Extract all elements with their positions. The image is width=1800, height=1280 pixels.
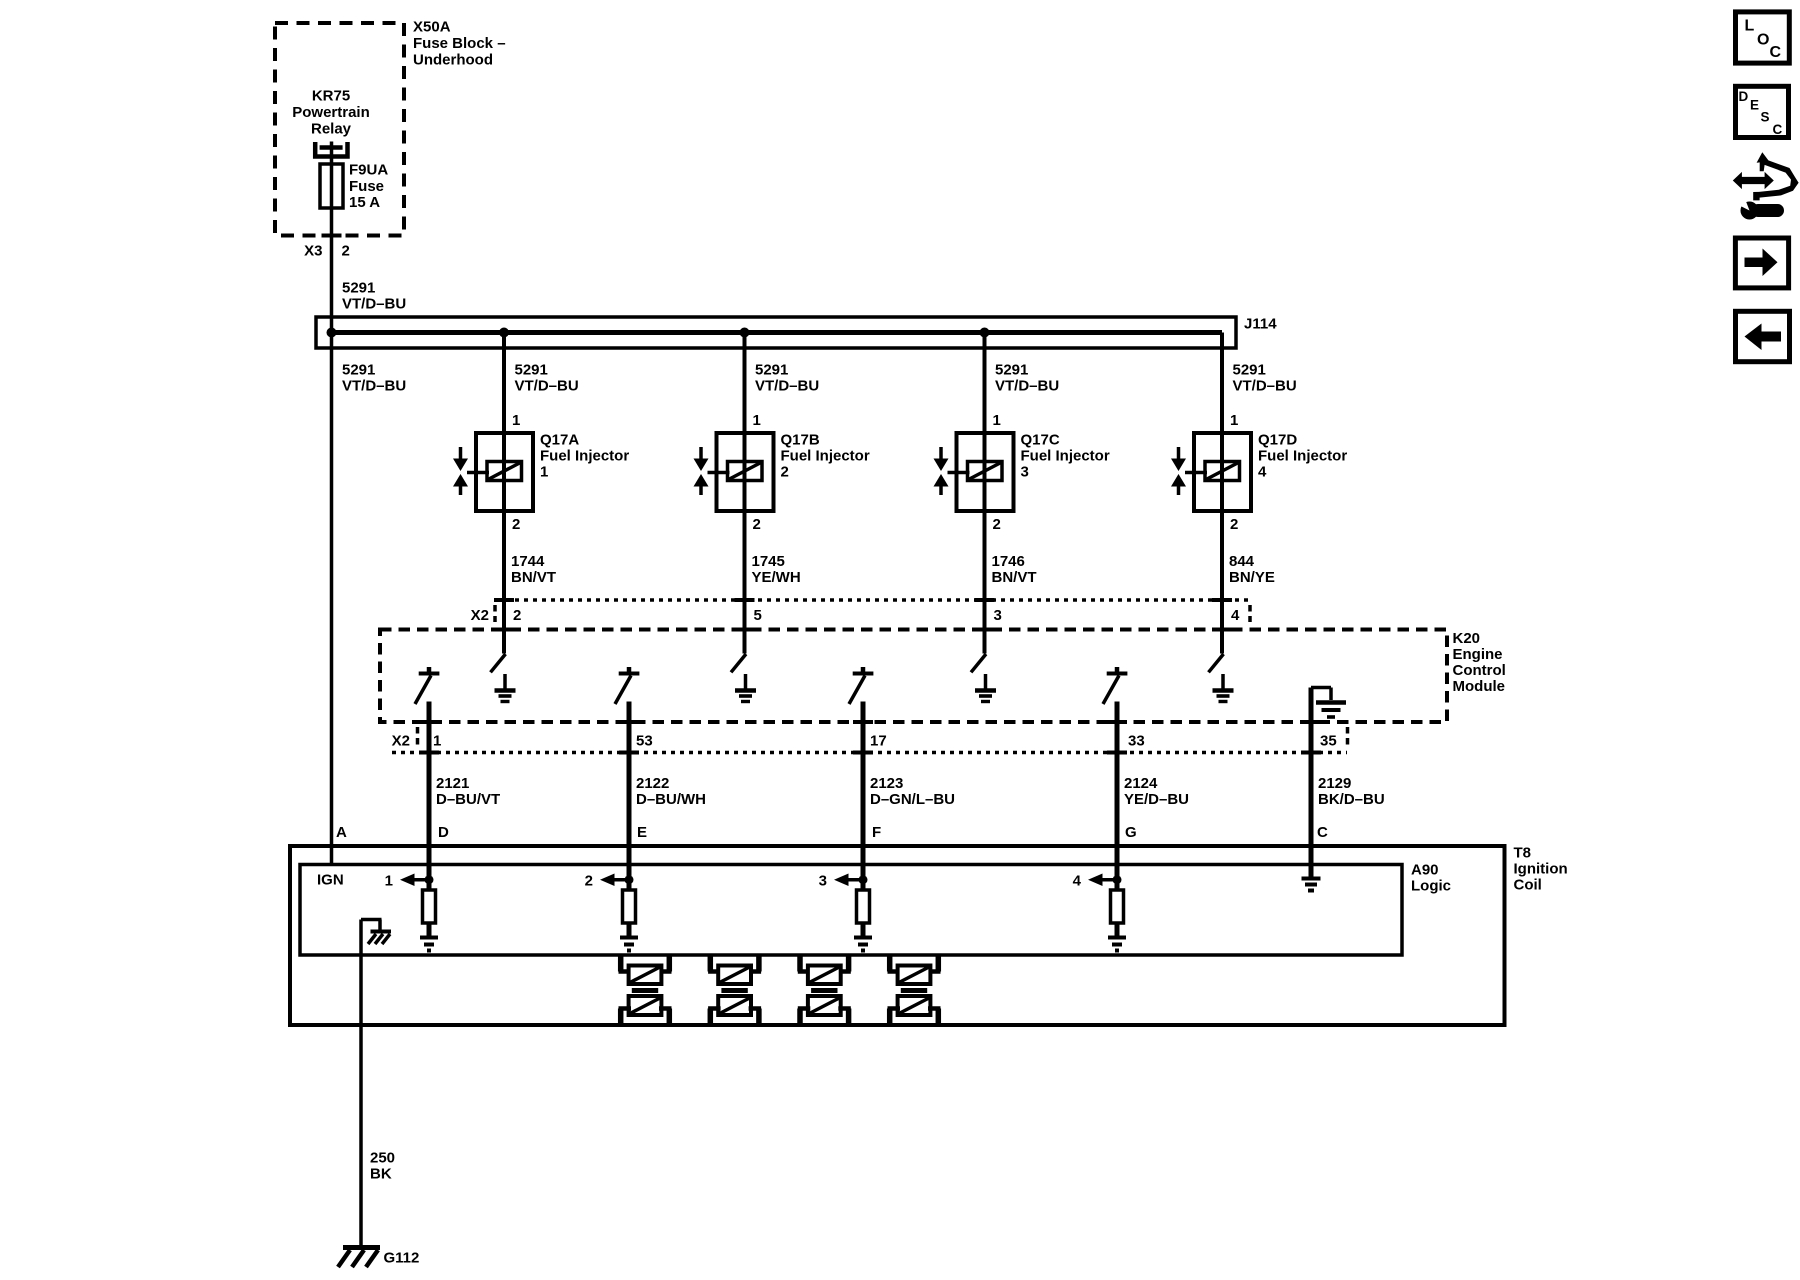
svg-text:Control: Control — [1453, 662, 1506, 679]
resistor input 3 — [857, 890, 870, 923]
svg-text:T8: T8 — [1514, 845, 1532, 862]
tick wire crossing X2 at pin 5 — [735, 598, 755, 602]
svg-text:4: 4 — [1258, 464, 1267, 481]
tick wire crossing fuse block edge — [322, 234, 342, 238]
svg-text:1: 1 — [385, 873, 393, 890]
fuse F9UA 15A — [320, 164, 343, 208]
chassis ground hook inside A90 (logic ground) — [361, 920, 391, 945]
ECM K20 dashed box — [380, 630, 1447, 723]
svg-text:5291: 5291 — [342, 280, 375, 297]
svg-text:Underhood: Underhood — [413, 52, 493, 69]
svg-text:1746: 1746 — [992, 553, 1025, 570]
svg-text:Engine: Engine — [1453, 646, 1503, 663]
junction node on bus (Q17A drop) — [499, 328, 509, 338]
wire 2123 from ECM pin 17 to ignition coil F — [861, 702, 866, 937]
relay KR75 contact symbol — [315, 142, 347, 157]
wire from relay KR75 through fuse down to bus — [330, 142, 334, 865]
svg-text:2129: 2129 — [1318, 775, 1351, 792]
svg-text:2: 2 — [1230, 516, 1238, 533]
svg-text:5: 5 — [754, 607, 762, 624]
ground in ECM for Q17D — [1213, 691, 1234, 702]
svg-text:F9UA: F9UA — [349, 162, 388, 179]
junction node input 1 — [425, 875, 434, 884]
label Q17A Fuel Injector 1 — [540, 432, 629, 481]
driver switch in ECM (output F) — [849, 667, 873, 704]
svg-text:2122: 2122 — [636, 775, 669, 792]
svg-text:5291: 5291 — [755, 362, 788, 379]
svg-text:D–BU/VT: D–BU/VT — [436, 791, 500, 808]
splice pack J114 box — [316, 317, 1236, 348]
svg-text:33: 33 — [1128, 733, 1145, 750]
wire label 5291 VT/D-BU — [1233, 362, 1297, 395]
svg-text:D: D — [438, 824, 449, 841]
svg-text:BK/D–BU: BK/D–BU — [1318, 791, 1385, 808]
label K20 Engine Control Module — [1453, 630, 1506, 695]
svg-text:YE/WH: YE/WH — [752, 569, 801, 586]
wire label 2122 D&#8211;BU/WH — [636, 775, 706, 808]
wire label 2121 D&#8211;BU/VT — [436, 775, 500, 808]
tick wire crossing X2 bottom at pin 1 — [419, 751, 439, 755]
ground under resistor 3 — [854, 938, 872, 951]
svg-text:D: D — [1739, 89, 1749, 104]
svg-text:VT/D–BU: VT/D–BU — [342, 378, 406, 395]
svg-text:2124: 2124 — [1124, 775, 1158, 792]
wire 250 BK from ignition coil to G112 — [359, 920, 363, 1247]
svg-text:844: 844 — [1229, 553, 1255, 570]
junction node input 3 — [859, 875, 868, 884]
svg-text:Logic: Logic — [1411, 878, 1451, 895]
coil control input 4 arrow — [1073, 873, 1117, 890]
svg-text:KR75: KR75 — [312, 88, 350, 105]
svg-text:Fuel Injector: Fuel Injector — [540, 448, 629, 465]
svg-text:Fuse Block –: Fuse Block – — [413, 35, 506, 52]
svg-text:Fuel Injector: Fuel Injector — [1021, 448, 1110, 465]
icon button DESC — [1736, 86, 1789, 137]
label KR75 Powertrain Relay — [292, 88, 370, 138]
svg-text:1: 1 — [753, 412, 761, 429]
svg-text:2: 2 — [753, 516, 761, 533]
svg-text:S: S — [1761, 110, 1770, 125]
wire label 5291 VT/D-BU — [995, 362, 1059, 395]
svg-text:Ignition: Ignition — [1514, 861, 1568, 878]
ignition coil T8 box — [290, 846, 1505, 1025]
ground for coil C terminal inside A90 — [1302, 879, 1321, 891]
svg-text:BK: BK — [370, 1166, 392, 1183]
svg-text:3: 3 — [994, 607, 1002, 624]
fuel injector Q17A — [453, 433, 533, 511]
svg-text:1: 1 — [993, 412, 1001, 429]
svg-text:250: 250 — [370, 1150, 395, 1167]
svg-text:X3: X3 — [304, 243, 322, 260]
switch to ground in ECM for Q17C — [971, 654, 986, 689]
svg-text:2: 2 — [585, 873, 593, 890]
connector X2 (bottom) right bracket — [1346, 727, 1350, 746]
svg-text:5291: 5291 — [342, 362, 375, 379]
svg-text:1744: 1744 — [511, 553, 545, 570]
junction node on bus (Q17B drop) — [740, 328, 750, 338]
svg-text:15 A: 15 A — [349, 194, 380, 211]
svg-text:5291: 5291 — [515, 362, 548, 379]
connector label X3 pin 2 — [304, 243, 350, 260]
svg-text:2121: 2121 — [436, 775, 469, 792]
svg-text:Q17D: Q17D — [1258, 432, 1297, 449]
fuse block X50A dashed box — [275, 23, 404, 236]
svg-text:Coil: Coil — [1514, 877, 1542, 894]
svg-text:3: 3 — [819, 873, 827, 890]
svg-text:IGN: IGN — [317, 872, 344, 889]
wire 2122 from ECM pin 53 to ignition coil E — [627, 702, 632, 937]
svg-text:Fuse: Fuse — [349, 178, 384, 195]
label X50A Fuse Block Underhood — [413, 19, 506, 69]
svg-text:Module: Module — [1453, 678, 1506, 695]
switch to ground in ECM for Q17A — [491, 654, 506, 689]
coil control input 3 arrow — [819, 873, 863, 890]
wire label 2123 D&#8211;GN/L&#8211;BU — [870, 775, 955, 808]
svg-text:G: G — [1125, 824, 1137, 841]
junction node input 2 — [625, 875, 634, 884]
svg-text:4: 4 — [1231, 607, 1240, 624]
svg-text:1: 1 — [512, 412, 520, 429]
svg-text:Powertrain: Powertrain — [292, 104, 370, 121]
svg-text:J114: J114 — [1244, 316, 1277, 333]
label T8 Ignition Coil — [1514, 845, 1568, 894]
svg-text:Fuel Injector: Fuel Injector — [781, 448, 870, 465]
ground under resistor 4 — [1108, 938, 1126, 951]
ignition coil winding pair 4 — [888, 955, 941, 1025]
wire 5291 drop to Q17B — [743, 333, 747, 654]
svg-text:X2: X2 — [471, 607, 489, 624]
label Q17D Fuel Injector 4 — [1258, 432, 1347, 481]
svg-text:BN/VT: BN/VT — [992, 569, 1037, 586]
svg-text:Q17B: Q17B — [781, 432, 820, 449]
connector X2 (top) left bracket — [493, 605, 497, 622]
wire label 5291 VT/D-BU — [755, 362, 819, 395]
svg-text:17: 17 — [870, 733, 887, 750]
tick wire crossing ECM edge (Q17D return) — [1212, 628, 1232, 632]
svg-text:35: 35 — [1320, 733, 1337, 750]
svg-text:K20: K20 — [1453, 630, 1481, 647]
tick wire crossing ECM edge (Q17A return) — [494, 628, 514, 632]
svg-text:VT/D–BU: VT/D–BU — [995, 378, 1059, 395]
svg-text:Relay: Relay — [311, 121, 352, 138]
fuel injector Q17B — [694, 433, 774, 511]
wire label 844 BN/YE — [1229, 553, 1275, 586]
tick wire crossing ECM edge (Q17B return) — [735, 628, 755, 632]
ignition coil winding pair 2 — [708, 955, 761, 1025]
wire label 2124 YE/D&#8211;BU — [1124, 775, 1189, 808]
wire label 1745 YE/WH — [752, 553, 801, 586]
svg-text:E: E — [1750, 98, 1759, 113]
label A90 Logic — [1411, 862, 1451, 895]
resistor input 2 — [623, 890, 636, 923]
bus wire inside J114 — [332, 330, 1223, 335]
svg-text:C: C — [1317, 824, 1328, 841]
connector X2 (bottom) left bracket — [416, 727, 420, 746]
tick wire crossing ECM bottom edge — [1107, 720, 1127, 724]
driver switch in ECM (output D) — [415, 667, 439, 704]
tick wire crossing X2 at pin 3 — [975, 598, 995, 602]
svg-text:VT/D–BU: VT/D–BU — [342, 296, 406, 313]
connector X2 (top) right bracket — [1248, 605, 1252, 622]
wire label 5291 VT/D-BU — [515, 362, 579, 395]
svg-text:A90: A90 — [1411, 862, 1439, 879]
svg-text:Q17A: Q17A — [540, 432, 579, 449]
label Q17B Fuel Injector 2 — [781, 432, 870, 481]
svg-text:VT/D–BU: VT/D–BU — [755, 378, 819, 395]
tick wire crossing X2 bottom at pin 33 — [1107, 751, 1127, 755]
wire 2129 from ECM pin 35 to ignition coil C — [1309, 753, 1314, 878]
wire label 1746 BN/VT — [992, 553, 1037, 586]
svg-text:F: F — [872, 824, 881, 841]
svg-text:D–GN/L–BU: D–GN/L–BU — [870, 791, 955, 808]
svg-text:O: O — [1757, 32, 1769, 49]
tick wire crossing X2 bottom at pin 53 — [619, 751, 639, 755]
svg-text:5291: 5291 — [995, 362, 1028, 379]
wire label 5291 VT/D-BU (above bus) — [342, 280, 406, 313]
icon button LOC — [1736, 12, 1790, 63]
tick wire crossing ECM bottom edge — [853, 720, 873, 724]
connector X2 (bottom) line — [392, 751, 1347, 755]
icon reroute/repair — [1733, 152, 1799, 219]
wire 5291 drop to Q17A — [502, 333, 506, 654]
wire 2124 from ECM pin 33 to ignition coil G — [1115, 702, 1120, 937]
driver switch in ECM (output E) — [615, 667, 639, 704]
svg-text:2: 2 — [993, 516, 1001, 533]
svg-text:C: C — [1770, 44, 1782, 61]
svg-text:E: E — [637, 824, 647, 841]
junction node on bus (Q17C drop) — [980, 328, 990, 338]
svg-text:VT/D–BU: VT/D–BU — [515, 378, 579, 395]
svg-text:4: 4 — [1073, 873, 1082, 890]
tick wire crossing X2 at pin 2 — [494, 598, 514, 602]
tick wire crossing ECM bottom edge — [619, 720, 639, 724]
wire 5291 drop to Q17D — [1220, 333, 1224, 654]
svg-text:BN/VT: BN/VT — [511, 569, 556, 586]
svg-text:C: C — [1773, 122, 1783, 137]
ignition coil winding pair 1 — [619, 955, 672, 1025]
junction node input 4 — [1113, 875, 1122, 884]
driver switch in ECM (output G) — [1103, 667, 1127, 704]
svg-text:1745: 1745 — [752, 553, 785, 570]
connector X2 (top) line — [497, 598, 1249, 602]
switch to ground in ECM for Q17D — [1209, 654, 1224, 689]
wire label 1744 BN/VT — [511, 553, 556, 586]
ground under resistor 2 — [620, 938, 638, 951]
svg-text:YE/D–BU: YE/D–BU — [1124, 791, 1189, 808]
svg-text:Fuel Injector: Fuel Injector — [1258, 448, 1347, 465]
wire 5291 drop to Q17C — [983, 333, 987, 654]
ground under resistor 1 — [420, 938, 438, 951]
ground in ECM for Q17A — [495, 691, 516, 702]
svg-text:X50A: X50A — [413, 19, 451, 36]
svg-text:BN/YE: BN/YE — [1229, 569, 1275, 586]
chassis ground G112 — [338, 1248, 380, 1268]
ground in ECM for Q17C — [975, 691, 996, 702]
tick wire crossing ECM edge (Q17C return) — [975, 628, 995, 632]
svg-text:5291: 5291 — [1233, 362, 1266, 379]
resistor input 1 — [423, 890, 436, 923]
svg-text:A: A — [336, 824, 347, 841]
svg-text:53: 53 — [636, 733, 653, 750]
svg-text:2123: 2123 — [870, 775, 903, 792]
svg-text:2: 2 — [513, 607, 521, 624]
svg-text:2: 2 — [342, 243, 350, 260]
ignition coil winding pair 3 — [798, 955, 851, 1025]
label F9UA Fuse 15 A — [349, 162, 388, 212]
tick wire crossing X2 bottom at pin 35 — [1301, 751, 1321, 755]
tick wire crossing ECM bottom edge — [1301, 720, 1321, 724]
svg-text:Q17C: Q17C — [1021, 432, 1060, 449]
low reference ground in ECM (pin 35) — [1311, 688, 1346, 753]
svg-text:VT/D–BU: VT/D–BU — [1233, 378, 1297, 395]
svg-text:1: 1 — [1230, 412, 1238, 429]
tick wire crossing ECM bottom edge — [419, 720, 439, 724]
wire label 5291 VT/D-BU — [342, 362, 406, 395]
ground in ECM for Q17B — [735, 691, 756, 702]
fuel injector Q17D — [1171, 433, 1251, 511]
svg-text:3: 3 — [1021, 464, 1029, 481]
coil control input 1 arrow — [385, 873, 429, 890]
resistor input 4 — [1111, 890, 1124, 923]
svg-text:2: 2 — [512, 516, 520, 533]
wire label 2129 BK/D&#8211;BU — [1318, 775, 1385, 808]
label Q17C Fuel Injector 3 — [1021, 432, 1110, 481]
svg-text:1: 1 — [433, 733, 441, 750]
icon button next (right arrow) — [1735, 238, 1788, 288]
tick wire crossing X2 at pin 4 — [1212, 598, 1232, 602]
svg-text:X2: X2 — [392, 733, 410, 750]
fuel injector Q17C — [934, 433, 1014, 511]
svg-text:1: 1 — [540, 464, 548, 481]
wire label 250 BK — [370, 1150, 395, 1183]
switch to ground in ECM for Q17B — [731, 654, 746, 689]
svg-text:G112: G112 — [384, 1250, 420, 1267]
svg-text:D–BU/WH: D–BU/WH — [636, 791, 706, 808]
junction node on bus (wire A) — [327, 328, 337, 338]
tick wire crossing X2 bottom at pin 17 — [853, 751, 873, 755]
icon button back (left arrow) — [1736, 311, 1790, 361]
coil control input 2 arrow — [585, 873, 629, 890]
wire 2121 from ECM pin 1 to ignition coil D — [427, 702, 432, 937]
svg-text:L: L — [1745, 18, 1755, 35]
A90 logic box — [300, 865, 1402, 956]
svg-text:2: 2 — [781, 464, 789, 481]
